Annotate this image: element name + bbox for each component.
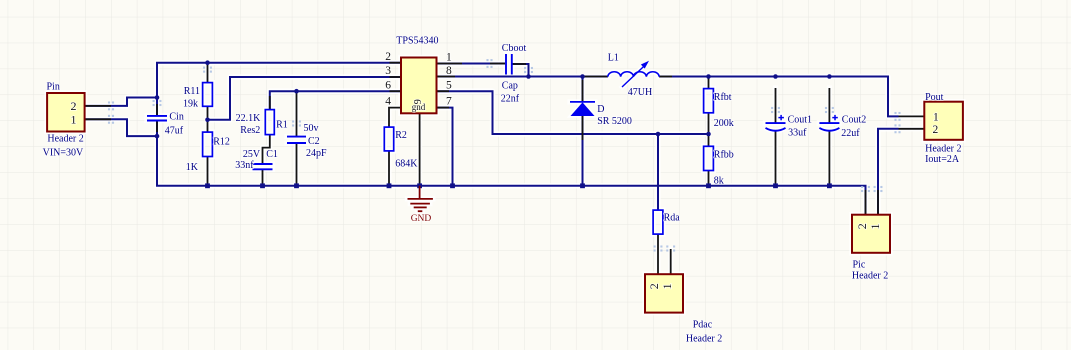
svg-text:8k: 8k: [714, 176, 724, 187]
svg-text:Header 2: Header 2: [686, 334, 722, 345]
svg-text:7: 7: [446, 96, 452, 108]
svg-text:684K: 684K: [395, 158, 418, 169]
svg-text:Header 2: Header 2: [47, 134, 83, 145]
svg-text:1: 1: [933, 112, 939, 124]
svg-text:Pout: Pout: [925, 92, 944, 103]
svg-text:22nf: 22nf: [501, 93, 520, 104]
svg-text:Rfbt: Rfbt: [714, 92, 732, 103]
svg-text:Cap: Cap: [502, 81, 518, 92]
svg-text:VIN=30V: VIN=30V: [43, 148, 84, 159]
svg-text:2: 2: [71, 99, 77, 113]
svg-text:19k: 19k: [183, 99, 198, 110]
svg-text:Pin: Pin: [47, 81, 60, 92]
svg-text:47uf: 47uf: [165, 126, 184, 137]
svg-text:Res2: Res2: [240, 125, 260, 136]
svg-text:D: D: [597, 104, 604, 115]
svg-text:1: 1: [660, 283, 674, 289]
svg-text:5: 5: [446, 80, 452, 92]
svg-text:Rda: Rda: [664, 213, 681, 224]
svg-text:R12: R12: [213, 137, 230, 148]
svg-text:L1: L1: [608, 53, 619, 64]
svg-text:1K: 1K: [186, 162, 199, 173]
svg-text:GND: GND: [411, 214, 432, 224]
svg-text:1: 1: [71, 112, 77, 126]
svg-text:Header 2: Header 2: [852, 271, 888, 282]
svg-text:Cin: Cin: [169, 112, 183, 123]
svg-text:TPS54340: TPS54340: [396, 36, 438, 47]
svg-text:Pic: Pic: [853, 260, 866, 271]
svg-text:R11: R11: [184, 86, 200, 97]
svg-text:Pdac: Pdac: [693, 320, 713, 331]
svg-text:22uf: 22uf: [841, 128, 860, 139]
svg-text:25V: 25V: [243, 149, 261, 160]
svg-text:3: 3: [385, 65, 391, 77]
svg-text:22.1K: 22.1K: [236, 113, 262, 124]
svg-text:33nf: 33nf: [235, 160, 254, 171]
svg-text:C2: C2: [308, 136, 320, 147]
svg-text:Rfbb: Rfbb: [714, 150, 734, 161]
svg-text:Cout1: Cout1: [788, 115, 812, 126]
svg-text:R1: R1: [276, 119, 288, 130]
svg-text:R2: R2: [395, 130, 407, 141]
svg-text:2: 2: [933, 124, 939, 136]
svg-text:6: 6: [385, 80, 391, 92]
svg-text:2: 2: [385, 51, 391, 63]
svg-text:50v: 50v: [304, 123, 319, 134]
svg-text:Cout2: Cout2: [842, 115, 866, 126]
svg-text:gnd: gnd: [412, 102, 426, 112]
svg-text:1: 1: [868, 224, 882, 230]
svg-text:4: 4: [385, 96, 391, 108]
svg-text:33uf: 33uf: [788, 127, 807, 138]
svg-text:SR 5200: SR 5200: [597, 116, 632, 127]
svg-text:Iout=2A: Iout=2A: [925, 154, 960, 165]
svg-text:Cboot: Cboot: [502, 43, 527, 54]
svg-text:47UH: 47UH: [628, 87, 652, 98]
svg-text:C1: C1: [266, 149, 278, 160]
svg-text:1: 1: [446, 52, 452, 64]
svg-text:200k: 200k: [714, 118, 734, 129]
svg-text:24pF: 24pF: [306, 148, 327, 159]
svg-text:8: 8: [446, 65, 452, 77]
